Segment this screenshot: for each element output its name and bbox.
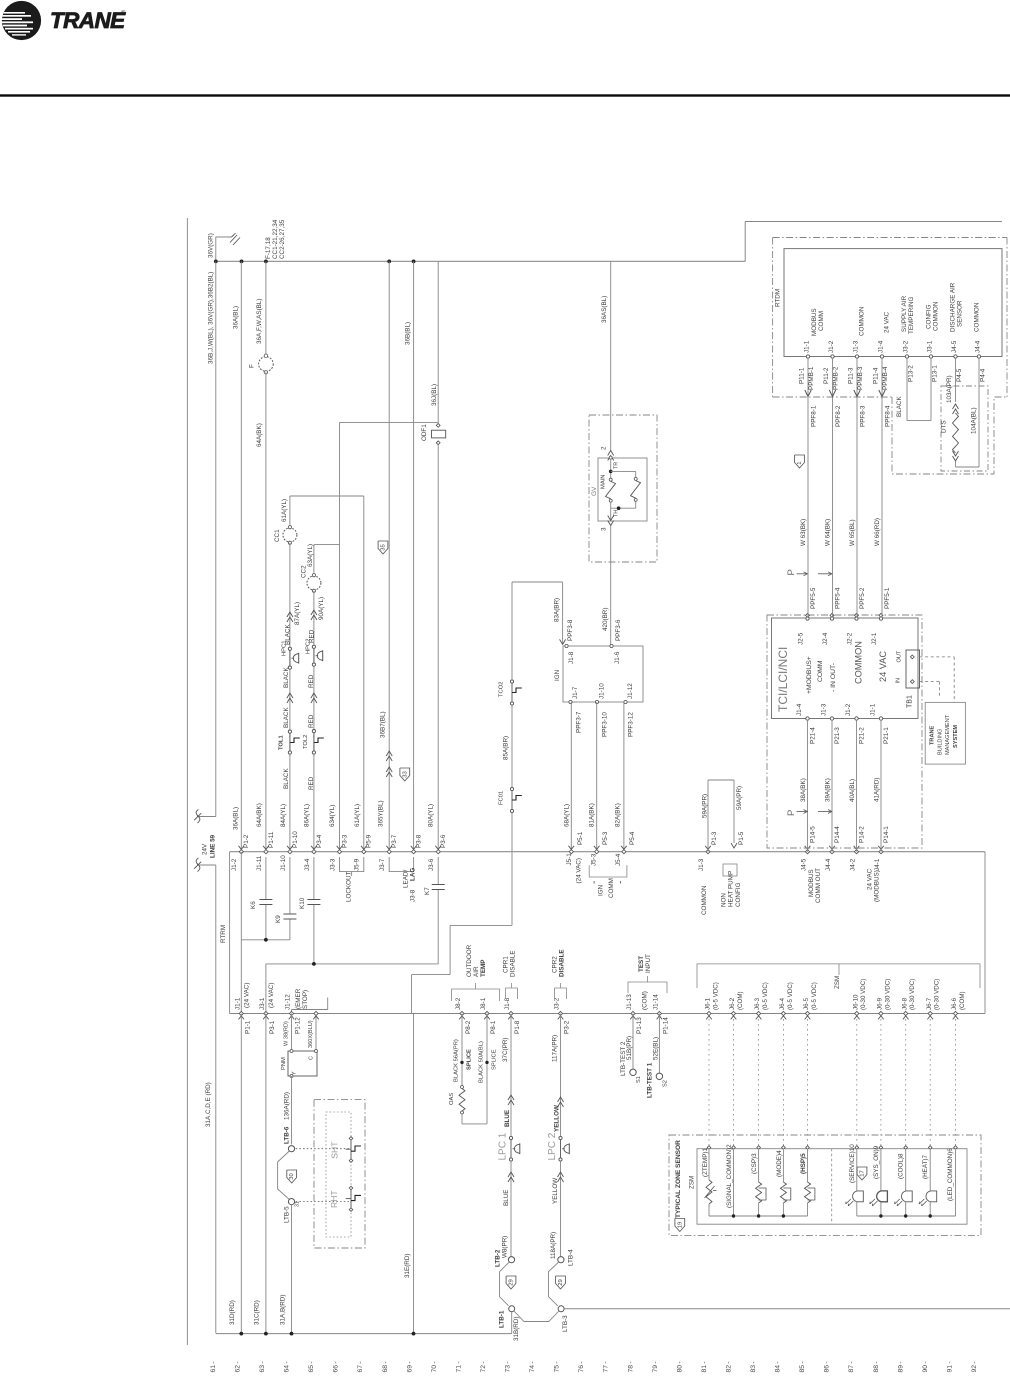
svg-text:64A(BK): 64A(BK) [256,423,263,447]
svg-text:SPLICE: SPLICE [491,1049,497,1070]
svg-text:88 -: 88 - [873,1361,880,1372]
svg-text:COMMON: COMMON [701,885,708,915]
svg-text:DISCHARGE AIR: DISCHARGE AIR [949,282,956,332]
bracket IGN COMM [589,865,627,877]
dotted links to RHT/SHT [296,1148,351,1150]
svg-text:84 -: 84 - [775,1361,782,1372]
svg-text:TEMPERING: TEMPERING [908,296,915,334]
wire 83A(BR) TCO2 to IGN [512,581,563,583]
svg-text:73 -: 73 - [505,1361,512,1372]
svg-text:FC01: FC01 [498,791,504,805]
svg-text:J6-5: J6-5 [803,997,810,1010]
relay contact K7 [437,857,439,884]
svg-text:PPF3-10: PPF3-10 [602,712,609,737]
svg-text:PPF5-2: PPF5-2 [859,587,866,609]
svg-text:90A(YL): 90A(YL) [318,597,325,620]
wire bottom right bus [564,1308,1010,1310]
bracket outdoor air temp [452,989,500,1001]
svg-text:P: P [786,810,797,816]
svg-text:117A(PR): 117A(PR) [551,1035,558,1062]
svg-text:68 -: 68 - [382,1361,389,1372]
svg-text:(HSP)5: (HSP)5 [800,1153,807,1174]
svg-text:P21-2: P21-2 [859,727,866,744]
svg-text:J3-8: J3-8 [409,889,416,902]
svg-text:75 -: 75 - [554,1361,561,1372]
svg-text:(LED_COMMON)6: (LED_COMMON)6 [947,1148,954,1201]
svg-text:PPMB-2: PPMB-2 [833,366,840,390]
svg-text:J5-1: J5-1 [566,853,573,866]
svg-text:36B(BL): 36B(BL) [404,322,411,345]
ZSM top pin diamonds [707,1146,711,1150]
svg-text:COMM: COMM [608,878,615,898]
RTDM enclosure dash-dot [773,237,1007,239]
svg-text:LPC 2: LPC 2 [547,1132,558,1160]
svg-text:PPF8-2: PPF8-2 [835,405,842,427]
svg-text:LAG: LAG [409,868,416,881]
svg-text:K9: K9 [275,915,282,923]
svg-text:(0-5 VDC): (0-5 VDC) [787,982,794,1010]
svg-text:J1-12: J1-12 [627,683,634,699]
svg-text:BLACK: BLACK [283,707,290,728]
pennant 29 left [506,1276,516,1289]
svg-text:J1-11: J1-11 [256,855,263,871]
IGN pin J1-8 [565,644,568,647]
svg-text:TB1: TB1 [907,695,914,708]
svg-text:36A(BL): 36A(BL) [233,306,240,329]
svg-text:360X(BLU): 360X(BLU) [308,1020,314,1048]
svg-text:71 -: 71 - [455,1361,462,1372]
svg-text:P14-5: P14-5 [810,826,817,843]
svg-text:SENSOR: SENSOR [956,300,963,327]
svg-text:HPC2: HPC2 [306,639,312,654]
svg-text:J6-3: J6-3 [754,997,761,1010]
svg-text:83 -: 83 - [750,1361,757,1372]
svg-text:IGN: IGN [554,669,561,681]
wire 36V(GR) top bus [216,260,745,262]
terminal block TB1 [906,650,920,688]
IGN pin J1-6 [610,644,613,647]
svg-text:LTB-1: LTB-1 [498,1310,505,1328]
svg-text:BLACK: BLACK [283,667,290,688]
wire 24vac branch k6 [240,852,242,1014]
wire 64A(BK) F to J1-11 [265,372,267,851]
wire LTB-1 to LTB-3 dip [514,1311,559,1322]
wire FC01 down jog to 31E [511,813,513,926]
svg-text:K7: K7 [424,887,431,895]
svg-text:52E(BL): 52E(BL) [652,1037,659,1060]
svg-text:62 -: 62 - [234,1361,241,1372]
wire LTB-4 to LTB-3 [549,1262,559,1306]
svg-text:(COM): (COM) [959,991,966,1010]
relay contact K6 [265,857,267,899]
svg-text:(0-30 VDC): (0-30 VDC) [934,979,941,1010]
svg-text:31D(RD): 31D(RD) [229,1300,236,1325]
RTDM pins J1 J3 J4 [806,355,809,358]
wire CC2 top link [314,544,340,546]
svg-text:S1: S1 [636,1076,642,1083]
wire LTB-6 to LTB-5 [278,1151,290,1199]
svg-text:P3-4: P3-4 [316,834,323,848]
svg-text:31B(RD): 31B(RD) [513,1317,520,1342]
svg-text:F-17,18: F-17,18 [265,237,272,259]
svg-text:(ZTEMP)1: (ZTEMP)1 [702,1147,709,1177]
svg-text:78 -: 78 - [627,1361,634,1372]
svg-text:S2: S2 [662,1080,668,1087]
svg-text:P21-4: P21-4 [810,727,817,744]
svg-text:P21-1: P21-1 [883,727,890,744]
svg-text:J5-9: J5-9 [354,858,361,871]
svg-text:PNM: PNM [281,1057,287,1070]
svg-text:DISABLE: DISABLE [559,949,566,977]
svg-text:31E(RD): 31E(RD) [404,1254,411,1279]
svg-text:TH: TH [614,510,620,517]
svg-text:AIR: AIR [473,966,480,977]
svg-text:84A(YL): 84A(YL) [280,804,287,827]
svg-text:RHT: RHT [329,1190,339,1208]
svg-text:CPR1: CPR1 [502,956,509,973]
wire 136A(RD) PNM to LTB-6 [291,1076,293,1145]
svg-text:365Y(BL): 365Y(BL) [378,800,385,827]
svg-text:SPLICE: SPLICE [466,1049,472,1070]
svg-text:(CSP)3: (CSP)3 [751,1153,758,1174]
svg-text:J6-6: J6-6 [951,997,958,1010]
svg-text:K6: K6 [250,901,257,909]
ZSM pins and dashed wires [706,1016,712,1020]
rail connector pins [239,846,245,850]
svg-text:85 -: 85 - [799,1361,806,1372]
svg-text:36A(BL): 36A(BL) [232,807,239,830]
svg-text:P1-11: P1-11 [268,831,275,848]
svg-text:W 65(BL): W 65(BL) [849,519,856,546]
svg-text:W 64(BK): W 64(BK) [824,519,831,546]
svg-text:J2-4: J2-4 [822,632,829,645]
svg-text:61A(YL): 61A(YL) [354,804,361,827]
pennant 30 [287,1170,297,1183]
relay contact K9 [289,857,291,914]
bracket cpr1 disable [506,988,518,999]
wire 36B(BL) to J3-8 [413,261,415,851]
svg-text:(0-30 VDC): (0-30 VDC) [860,979,867,1010]
svg-text:LOCKOUT: LOCKOUT [345,871,352,902]
svg-text:3: 3 [600,527,607,531]
svg-text:J1-3: J1-3 [821,703,828,716]
svg-text:67 -: 67 - [357,1361,364,1372]
svg-text:J1-13: J1-13 [626,994,633,1010]
IGN pin J1-12 [624,700,627,703]
TCI bottom pins J1 [806,717,809,720]
svg-text:F: F [248,364,255,368]
wire 36A,F,W,AS(BL) fan branch [265,261,267,356]
svg-text:W8(PR): W8(PR) [501,1236,508,1258]
svg-text:P14-4: P14-4 [834,826,841,843]
svg-text:J1-8: J1-8 [504,997,511,1010]
pennant 29 right [556,1276,566,1289]
svg-text:J4-4: J4-4 [974,340,981,353]
svg-text:LINE 59: LINE 59 [210,834,217,858]
svg-text:COMMON: COMMON [853,641,863,684]
wire 31A,C,D,E feeder lower [197,864,216,866]
svg-text:IN: IN [896,678,902,684]
svg-text:®: ® [121,10,126,17]
svg-text:P5-4: P5-4 [629,831,636,845]
wire emer stop jog [327,998,329,1010]
svg-text:SUPPLY AIR: SUPPLY AIR [901,295,908,332]
svg-text:61 -: 61 - [210,1361,217,1372]
svg-text:SHT: SHT [330,1141,340,1159]
svg-text:J6-1: J6-1 [705,997,712,1010]
svg-text:YELLOW: YELLOW [554,1105,561,1132]
svg-text:P4-4: P4-4 [980,368,987,382]
wire BLUE below LPC1 [510,1161,512,1256]
main connector rail [230,851,985,853]
svg-text:MODBUS: MODBUS [811,308,818,336]
wire 31C(RD) [265,1014,267,1334]
svg-text:P1-5: P1-5 [738,831,745,845]
pennant 1 [795,455,805,468]
svg-text:OUTDOOR: OUTDOOR [466,944,473,977]
svg-text:NON: NON [720,893,727,907]
svg-text:P1-13: P1-13 [636,1017,643,1034]
svg-text:MODBUS: MODBUS [808,869,815,897]
svg-text:69 -: 69 - [406,1361,413,1372]
wire RED HPC2 TOL2 column [313,591,315,852]
wire 52E(BL) test 1 [658,1014,660,1074]
svg-text:72 -: 72 - [480,1361,487,1372]
svg-text:GV: GV [591,486,598,496]
svg-text:J1-6: J1-6 [614,651,621,664]
wire 37C(PR) [510,1014,512,1137]
svg-text:J8-2: J8-2 [455,997,462,1010]
svg-text:77 -: 77 - [603,1361,610,1372]
svg-text:J4-4: J4-4 [825,858,832,871]
humidistat enclosure RHT/SHT [314,1100,365,1248]
svg-text:(0-5 VDC): (0-5 VDC) [762,982,769,1010]
wire 360X(BLU) to PNM [315,1014,317,1052]
svg-text:LTB-3: LTB-3 [562,1315,569,1332]
svg-text:86 -: 86 - [824,1361,831,1372]
svg-text:P13-1: P13-1 [932,365,939,382]
svg-text:P: P [786,569,797,575]
svg-text:BLACK 50A(BL): BLACK 50A(BL) [478,1041,484,1083]
svg-text:86A(YL): 86A(YL) [304,804,311,827]
svg-text:39A(BK): 39A(BK) [824,778,831,802]
svg-text:103A(PR): 103A(PR) [946,375,953,403]
svg-text:(SYS_ON)9: (SYS_ON)9 [873,1145,880,1179]
svg-text:P1-2: P1-2 [243,834,250,848]
svg-text:36AS(BL): 36AS(BL) [601,296,608,323]
svg-text:TEST: TEST [638,956,645,972]
wire BLACK 56A(PR) [461,1014,463,1088]
svg-text:80 -: 80 - [676,1361,683,1372]
svg-text:(MODE)4: (MODE)4 [776,1150,783,1177]
pennant 19 [675,1219,685,1232]
svg-text:OAS: OAS [449,1093,455,1105]
svg-text:36A,F,W,AS(BL): 36A,F,W,AS(BL) [256,299,263,345]
svg-text:TCI/LCI/NCI: TCI/LCI/NCI [776,647,790,712]
svg-text:31C(RD): 31C(RD) [253,1300,260,1325]
svg-text:36J(BL): 36J(BL) [431,384,438,406]
svg-text:DISABLE: DISABLE [510,950,517,977]
svg-text:66 -: 66 - [333,1361,340,1372]
svg-text:LEAD/: LEAD/ [402,870,409,888]
svg-text:CC1-21,22,34: CC1-21,22,34 [272,219,279,259]
svg-text:YELLOW: YELLOW [552,1178,559,1204]
svg-text:P11-1: P11-1 [798,367,805,384]
svg-text:DTS: DTS [940,420,947,433]
svg-text:LPC 1: LPC 1 [498,1132,509,1160]
svg-text:W 63(BK): W 63(BK) [800,519,807,546]
wire 117A(PR) [560,1014,562,1137]
wires RTDM to TCI (W63-W66) [807,358,809,617]
svg-text:TYPICAL ZONE SENSOR: TYPICAL ZONE SENSOR [675,1140,682,1218]
pennant 17 [857,1167,867,1180]
svg-text:J4-1: J4-1 [874,858,881,871]
svg-text:P1-1: P1-1 [244,1020,251,1034]
svg-text:J1-4: J1-4 [796,703,803,716]
wire 36J(BL) ODF1 branch [437,261,439,423]
svg-text:J4-5: J4-5 [951,340,958,353]
svg-text:PPF5-1: PPF5-1 [884,587,891,609]
svg-text:COMMON: COMMON [858,306,865,336]
svg-text:P5-1: P5-1 [577,831,584,845]
svg-text:J6-4: J6-4 [779,997,786,1010]
svg-text:P8-1: P8-1 [490,1020,497,1034]
module PNM [288,1051,317,1076]
svg-text:J6-8: J6-8 [901,997,908,1010]
wire 36B(BL) to J3-7 [388,261,390,851]
svg-text:J5-4: J5-4 [615,853,622,866]
svg-text:C: C [308,1056,314,1060]
svg-text:BLACK 56A(PR): BLACK 56A(PR) [453,1039,459,1082]
terminal S1 [630,1069,636,1075]
svg-text:J6-2: J6-2 [729,997,736,1010]
RTRM module box [229,852,231,1014]
wire 36AS(BL) to GV [610,261,612,450]
svg-text:92 -: 92 - [971,1361,978,1372]
svg-text:COMM OUT: COMM OUT [815,868,822,903]
svg-text:(0-30 VDC): (0-30 VDC) [884,979,891,1010]
svg-text:J2-1: J2-1 [871,632,878,645]
svg-text:24 VAC: 24 VAC [866,868,873,890]
header rule [0,94,1010,96]
svg-text:31A,B(RD): 31A,B(RD) [280,1295,287,1325]
svg-text:37C(PR): 37C(PR) [502,1038,509,1063]
svg-text:BLACK: BLACK [283,768,290,789]
svg-text:RED: RED [308,776,315,790]
svg-text:420(BR): 420(BR) [602,608,609,631]
svg-text:RED: RED [308,714,315,728]
svg-text:TRANE: TRANE [50,8,126,33]
svg-text:J1-10: J1-10 [599,683,606,699]
svg-text:P1-8: P1-8 [514,1020,521,1034]
terminal LTB-4 [558,1257,564,1263]
wire 31E(RD) [413,1014,415,1334]
svg-text:ODF1: ODF1 [421,424,428,441]
svg-text:P4-5: P4-5 [956,368,963,382]
svg-text:ZSM: ZSM [689,1176,696,1189]
schematic left border [186,218,188,1345]
svg-text:(HEAT)7: (HEAT)7 [922,1154,929,1179]
bracket cpr2 disable [555,988,567,999]
svg-text:J6-7: J6-7 [926,997,933,1010]
wire common rail to ODF1/K7 [266,963,438,965]
svg-text:83A(BR): 83A(BR) [554,598,561,622]
svg-text:63A(YL): 63A(YL) [307,544,314,567]
svg-text:PPF3-7: PPF3-7 [576,711,583,733]
svg-text:J1-12: J1-12 [285,994,292,1010]
svg-text:CONFIG: CONFIG [735,882,742,907]
svg-text:J3-1: J3-1 [926,340,933,353]
svg-text:P14-1: P14-1 [883,826,890,843]
node junction dots on top bus [240,260,244,264]
svg-text:J1-3: J1-3 [852,340,859,353]
svg-text:51B(PR): 51B(PR) [626,1036,633,1060]
wire 31B(RD) bottom bus [216,1333,512,1335]
svg-text:24V: 24V [202,843,209,855]
svg-text:J4-5: J4-5 [800,858,807,871]
svg-text:OUT: OUT [896,650,902,662]
svg-text:J4-2: J4-2 [849,858,856,871]
wire 36B left feeder upper [215,261,217,816]
svg-text:PPF3-6: PPF3-6 [615,619,622,641]
svg-text:36V(GR): 36V(GR) [207,233,214,258]
bracket test input [628,982,667,993]
svg-text:81A(BK): 81A(BK) [589,803,596,827]
svg-text:30: 30 [289,1173,295,1180]
svg-text:P5-3: P5-3 [602,831,609,845]
svg-text:104A(BL): 104A(BL) [970,407,977,434]
svg-text:J1-2: J1-2 [845,703,852,716]
svg-text:64A(BK): 64A(BK) [256,803,263,827]
svg-text:85A(BR): 85A(BR) [503,736,510,760]
svg-text:J1-1: J1-1 [870,703,877,716]
svg-text:(0-5 VDC): (0-5 VDC) [811,982,818,1010]
svg-text:INPUT: INPUT [645,954,652,973]
svg-text:J3-3: J3-3 [329,858,336,871]
svg-text:P5-9: P5-9 [366,834,373,848]
zone sensor inner box [697,1149,967,1225]
svg-text:J5-3: J5-3 [591,853,598,866]
svg-text:17: 17 [860,1170,866,1177]
gas valve enclosure GV [589,415,657,562]
svg-text:PPF5-5: PPF5-5 [810,587,817,609]
svg-text:J1-7: J1-7 [572,686,579,699]
zone sensor enclosure [669,1135,981,1235]
IGN pin J1-7 [569,700,572,703]
svg-text:2: 2 [600,446,607,450]
dotted wires TB1 to BMS [920,656,955,658]
svg-text:J3-7: J3-7 [379,858,386,871]
svg-text:TRANE: TRANE [929,725,935,745]
TCI/LCI/NCI box [772,618,919,719]
svg-text:J8-1: J8-1 [480,997,487,1010]
svg-text:80A(YL): 80A(YL) [428,804,435,827]
svg-text:19: 19 [677,1222,683,1229]
wire 36A(BL) to J1-2 [240,261,242,851]
svg-text:TR: TR [614,462,620,469]
svg-text:P14-2: P14-2 [859,826,866,843]
svg-text:(SIGNAL_COMMON)2: (SIGNAL_COMMON)2 [726,1144,733,1208]
svg-text:63 -: 63 - [259,1361,266,1372]
svg-text:W 66(RD): W 66(RD) [874,518,881,546]
svg-text:J1-1: J1-1 [803,340,810,353]
svg-text:J1-8: J1-8 [568,651,575,664]
svg-text:PPF8-1: PPF8-1 [810,405,817,427]
wire ODF1 to J3-6 [437,445,439,852]
svg-text:W 38(RD): W 38(RD) [283,1021,289,1046]
svg-text:(24 VAC): (24 VAC) [575,858,582,883]
svg-text:K10: K10 [299,897,306,909]
